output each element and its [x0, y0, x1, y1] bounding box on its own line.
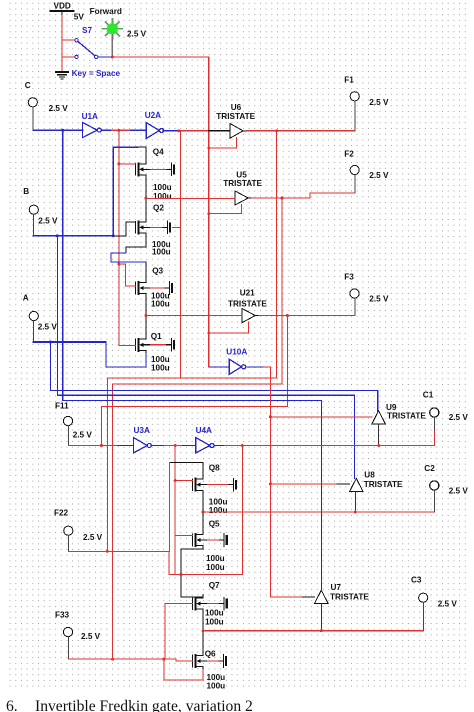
transistor Q1 — [135, 332, 174, 373]
svg-text:TRISTATE: TRISTATE — [223, 179, 262, 188]
svg-text:U8: U8 — [364, 471, 375, 480]
svg-text:Forward: Forward — [90, 7, 122, 16]
svg-text:S7: S7 — [82, 26, 92, 35]
input C — [25, 81, 69, 130]
svg-text:2.5 V: 2.5 V — [438, 600, 458, 609]
svg-text:2.5 V: 2.5 V — [449, 486, 469, 495]
svg-text:TRISTATE: TRISTATE — [387, 412, 426, 421]
svg-text:100u: 100u — [151, 364, 170, 373]
wire B to U8 (blue bus 2) — [57, 236, 354, 479]
blue junction dots — [49, 129, 115, 344]
wire Q8 drain node — [169, 461, 203, 463]
input A — [23, 293, 58, 342]
svg-text:TRISTATE: TRISTATE — [364, 480, 403, 489]
wire chain Q4-Q2 — [145, 178, 147, 219]
svg-text:100u: 100u — [152, 248, 171, 257]
wire U10A input — [210, 366, 229, 368]
transistor Q2 — [135, 204, 180, 257]
input F11 — [55, 402, 92, 446]
svg-text:F3: F3 — [344, 273, 354, 282]
wire B to Q2 gate — [113, 222, 135, 236]
wire Q1 source to A — [106, 342, 146, 367]
power VDD — [51, 2, 85, 22]
svg-text:2.5 V: 2.5 V — [81, 632, 101, 641]
wire B input — [33, 235, 113, 237]
wire C3 line — [203, 630, 423, 632]
svg-text:100u: 100u — [205, 609, 224, 618]
svg-text:100u: 100u — [206, 554, 225, 563]
output F1 — [344, 76, 389, 131]
output C3 — [411, 575, 457, 630]
svg-text:U1A: U1A — [82, 112, 98, 121]
wire U5-out wrap W2 — [113, 198, 283, 659]
transistor Q4 — [135, 148, 174, 202]
wire C2 line — [203, 511, 434, 513]
wire U2A-out bus down — [180, 131, 182, 378]
svg-text:F11: F11 — [55, 402, 69, 411]
wire A input — [33, 341, 105, 343]
svg-text:100u: 100u — [151, 300, 170, 309]
svg-text:2.5 V: 2.5 V — [38, 323, 58, 332]
tristate U8 (points up) — [350, 471, 404, 492]
svg-text:F1: F1 — [344, 76, 354, 85]
output C2 — [424, 464, 468, 512]
svg-text:U10A: U10A — [226, 348, 247, 357]
svg-text:2.5 V: 2.5 V — [83, 533, 103, 542]
input F22 — [54, 508, 103, 551]
svg-text:U6: U6 — [231, 103, 242, 112]
svg-text:100u: 100u — [207, 682, 226, 691]
svg-text:Key = Space: Key = Space — [72, 69, 121, 78]
wire Q4 gate tap — [119, 163, 135, 165]
wire enable bus down to U10A — [209, 57, 230, 367]
wire chain Q2-Q3 jog — [126, 236, 146, 253]
wire C input to U1A — [33, 129, 82, 131]
wire U9 output — [378, 424, 380, 446]
wire U7 output — [320, 603, 322, 630]
inverter U1A — [82, 122, 101, 137]
wire U8 output — [354, 492, 356, 512]
wire U9 enable — [270, 416, 371, 418]
input B — [23, 187, 58, 236]
wire U4A output to C1 — [214, 445, 225, 447]
wire Q8 gate tap — [175, 480, 192, 482]
svg-text:C2: C2 — [424, 464, 435, 473]
wire U3A-out bus down (Q8/Q5 gates) — [174, 446, 176, 575]
svg-text:Q2: Q2 — [153, 204, 164, 213]
wire F22 — [68, 551, 242, 574]
wire A to U9 (blue bus 1) — [51, 342, 378, 411]
svg-text:2.5 V: 2.5 V — [38, 217, 58, 226]
transistor Q7 — [192, 581, 226, 627]
svg-text:100u: 100u — [153, 192, 172, 201]
wire U5 output to F2 — [248, 197, 252, 199]
wire Q6 gate tap — [176, 659, 192, 661]
svg-text:U21: U21 — [240, 288, 255, 297]
svg-text:TRISTATE: TRISTATE — [330, 592, 369, 601]
input F33 — [55, 610, 101, 659]
svg-text:U2A: U2A — [145, 111, 161, 120]
wire chain Q8-Q5 — [202, 493, 204, 531]
svg-text:F2: F2 — [344, 150, 354, 159]
svg-text:U7: U7 — [331, 583, 342, 592]
LED (green, lit) — [103, 19, 147, 57]
wire U21-out wrap W3 — [102, 316, 288, 446]
wire F33 — [68, 658, 176, 660]
svg-text:Invertible Fredkin gate, varia: Invertible Fredkin gate, variation 2 — [35, 698, 253, 712]
svg-text:B: B — [23, 187, 29, 196]
svg-text:U5: U5 — [236, 170, 247, 179]
svg-text:C1: C1 — [423, 391, 434, 400]
transistor Q5 — [192, 520, 226, 572]
wire Q5 gate tap — [175, 535, 192, 537]
svg-text:2.5 V: 2.5 V — [449, 413, 469, 422]
svg-text:C: C — [25, 81, 31, 90]
wire U3A out to U4A — [151, 445, 164, 447]
wire Q1 gate tap — [119, 344, 135, 346]
svg-text:Q4: Q4 — [153, 148, 164, 157]
inverter U10A — [229, 359, 246, 374]
svg-text:Q3: Q3 — [152, 267, 163, 276]
svg-text:F22: F22 — [54, 508, 69, 517]
tristate U7 (points up) — [315, 583, 370, 603]
tristate U6 — [209, 103, 256, 148]
output F2 — [344, 150, 389, 193]
svg-text:100u: 100u — [206, 563, 225, 572]
wire U5 input — [146, 197, 235, 199]
inverter U3A — [134, 438, 152, 453]
wire to top throw — [62, 39, 75, 41]
svg-text:2.5 V: 2.5 V — [369, 98, 389, 107]
svg-text:Q7: Q7 — [209, 581, 220, 590]
wire Q3 gate tap — [119, 264, 135, 286]
svg-text:TRISTATE: TRISTATE — [216, 112, 255, 121]
wire VDD to switch — [61, 15, 63, 72]
wire U6 output to F1 — [243, 130, 247, 132]
svg-text:U3A: U3A — [134, 426, 150, 435]
svg-text:100u: 100u — [153, 183, 172, 192]
wire U8 enable — [270, 483, 337, 485]
wire Q4 drain node (B) — [113, 146, 137, 148]
svg-text:C3: C3 — [411, 575, 422, 584]
svg-text:2.5 V: 2.5 V — [369, 171, 389, 180]
svg-text:U9: U9 — [386, 403, 397, 412]
wire U1A out — [101, 129, 112, 131]
svg-text:2.5 V: 2.5 V — [73, 431, 93, 440]
wire U2A out to U6 — [164, 130, 179, 132]
svg-text:5V: 5V — [74, 13, 85, 22]
svg-text:VDD: VDD — [54, 2, 71, 11]
wire U1A-out bus down to gates — [118, 130, 120, 345]
wire U6-out wrap W1 — [107, 131, 276, 552]
svg-text:Q1: Q1 — [151, 332, 162, 341]
svg-text:F33: F33 — [55, 610, 70, 619]
wire Q6 source return — [164, 659, 203, 680]
svg-text:Q8: Q8 — [209, 464, 220, 473]
svg-text:2.5 V: 2.5 V — [49, 104, 69, 113]
svg-text:U4A: U4A — [196, 426, 212, 435]
svg-text:Q6: Q6 — [205, 649, 216, 658]
svg-text:2.5 V: 2.5 V — [127, 29, 147, 38]
inverter U2A — [146, 123, 163, 139]
output C1 — [423, 391, 469, 432]
wire switch common to bus — [98, 56, 111, 58]
ground — [56, 72, 68, 79]
transistor Q8 — [192, 464, 236, 516]
svg-text:A: A — [23, 293, 29, 302]
transistor Q3 — [135, 267, 172, 309]
wire chain Q7-Q6 — [202, 612, 204, 652]
tristate U9 (points up) — [372, 403, 427, 424]
svg-text:100u: 100u — [205, 618, 224, 627]
switch S7 — [72, 26, 121, 78]
tristate U5 — [209, 170, 263, 213]
tristate U21 — [209, 288, 268, 333]
inverter U4A — [196, 438, 214, 453]
wire chain Q5-Q7 jog — [181, 549, 203, 598]
wire F11 to U3A — [68, 445, 117, 447]
wire U21 output to F3 — [255, 315, 259, 317]
wire to bottom throw — [62, 56, 75, 58]
wire chain Q3-Q1 — [145, 297, 147, 337]
svg-text:6.: 6. — [6, 698, 18, 712]
svg-text:Q5: Q5 — [209, 520, 220, 529]
svg-text:TRISTATE: TRISTATE — [228, 299, 267, 308]
transistor Q6 — [192, 649, 226, 690]
output F3 — [344, 273, 389, 316]
wire U21 input — [146, 315, 242, 317]
wire C to U7 (blue bus 3) — [63, 130, 322, 590]
svg-text:100u: 100u — [209, 506, 228, 515]
wire Q7 gate feed — [165, 604, 192, 660]
svg-text:2.5 V: 2.5 V — [369, 294, 389, 303]
wire U10A output down — [246, 366, 264, 368]
wire U4A-out down to F22 line — [241, 446, 243, 575]
